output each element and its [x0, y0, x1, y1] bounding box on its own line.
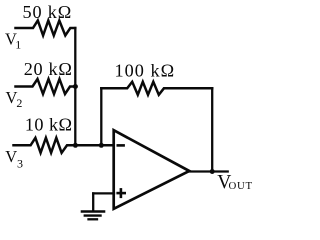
node junction dot feedback to inverting wire	[99, 143, 104, 148]
svg-text:100 kΩ: 100 kΩ	[115, 61, 176, 81]
svg-text:2: 2	[16, 96, 22, 110]
svg-text:3: 3	[17, 156, 23, 170]
resistor R1 50k with input wire from V1	[16, 21, 76, 36]
node junction dot bus to inverting wire	[73, 143, 78, 148]
node junction dot output	[210, 169, 215, 174]
svg-text:OUT: OUT	[229, 180, 253, 192]
resistor R4 100k feedback with top wires	[101, 82, 212, 95]
svg-text:20 kΩ: 20 kΩ	[24, 59, 73, 79]
resistor R3 10k with input wire from V3 and wire to op-amp inverting input	[14, 138, 114, 153]
svg-text:50 kΩ: 50 kΩ	[23, 2, 73, 22]
wire bus vertical from R1 down to inverting node	[74, 28, 76, 145]
resistor R2 20k with input wire from V2	[16, 79, 76, 94]
op-amp U1 triangle	[114, 130, 190, 209]
wire feedback right vertical down to output node	[211, 88, 213, 171]
op-amp minus pin mark	[118, 144, 124, 147]
op-amp plus pin mark	[118, 192, 125, 195]
svg-text:10 kΩ: 10 kΩ	[25, 115, 73, 135]
wire feedback left vertical down to inverting node	[100, 88, 102, 145]
wire output from op-amp apex	[189, 170, 227, 172]
wire noninverting input	[93, 192, 114, 194]
svg-text:V: V	[5, 147, 17, 166]
wire ground vertical	[92, 193, 94, 211]
svg-text:1: 1	[15, 37, 21, 51]
node junction dot R2 to bus	[73, 84, 78, 89]
ground symbol	[82, 210, 104, 213]
